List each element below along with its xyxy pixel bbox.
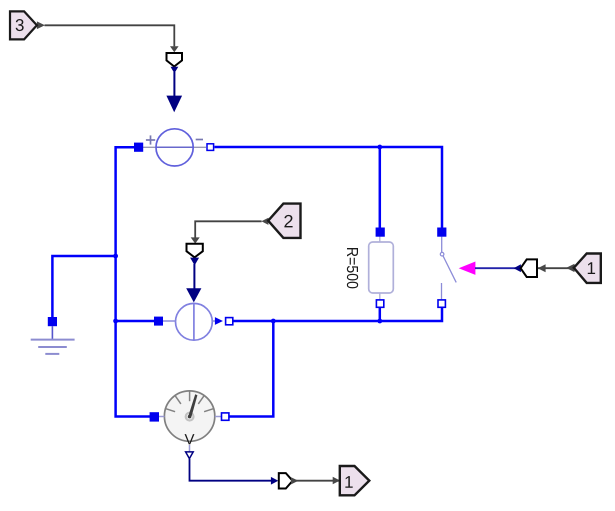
arrowhead out of connector y1: [291, 477, 298, 484]
voltmeter M1 left pin: [150, 412, 159, 421]
wire: resistor bottom to bottom row: [379, 308, 382, 321]
resistor R1 bottom pin: [376, 300, 383, 307]
input tag 2: [268, 204, 300, 238]
wire: left trunk middle segment: [114, 256, 117, 321]
voltmeter M1: [150, 391, 229, 441]
connector y1 (RealOutput pass-through pentagon): [279, 473, 293, 488]
signal wire u2 to current source input: [190, 258, 199, 289]
arrowhead at connector u1 tip: [514, 264, 521, 272]
signal wire voltmeter output to connector y1: [190, 459, 274, 481]
connector u3 (RealInput pass-through pentagon): [167, 53, 183, 67]
voltage source U1 minus label: [196, 139, 203, 141]
voltage source U1 (signal voltage): [143, 129, 206, 166]
wire: voltmeter right branch: [229, 321, 273, 417]
wire: voltage source right pin to switch top: [215, 147, 443, 228]
current source U2 signal input arrow: [186, 288, 201, 302]
junction at trunk/ground tee: [113, 254, 118, 259]
voltmeter M1 output connector: [186, 445, 194, 459]
junction at resistor top branch: [377, 145, 382, 150]
junction at voltmeter branch: [271, 319, 276, 324]
wire: voltage source left pin to left trunk: [116, 147, 134, 256]
wire: current source right pin to switch bottom: [233, 308, 442, 321]
current source U2 positive pin: [154, 317, 163, 326]
wire: ground branch: [52, 256, 115, 318]
ground G1 pin: [48, 317, 57, 326]
switch S1 boolean control input arrow: [459, 262, 476, 275]
voltmeter M1 right pin: [222, 413, 229, 420]
wire from input tag 1 to connector u1: [538, 267, 574, 269]
current source U2 negative pin: [226, 318, 233, 325]
output tag 1: [340, 466, 370, 495]
arrowhead at tag 1 tip: [566, 264, 574, 272]
voltmeter M1 V label: [185, 434, 195, 444]
switch S1 top pin: [437, 228, 446, 237]
current source U2 (signal current): [163, 303, 216, 340]
voltage source U1 signal input arrow: [166, 96, 182, 113]
arrowhead into connector y1: [271, 477, 278, 485]
signal wire from connector u1 to switch control: [475, 267, 517, 269]
arrowhead at tag 2 tip: [261, 218, 268, 225]
resistor R1 body: [369, 236, 394, 299]
wire from input tag 2 to connector u2: [195, 221, 261, 238]
current source U2 direction arrow: [215, 317, 223, 325]
wire: current source left pin to trunk: [116, 320, 155, 323]
wire from input tag 3 to connector u3: [45, 25, 175, 46]
arrowhead at tag 3 tip: [37, 21, 45, 29]
voltage source U1 positive pin: [134, 143, 143, 152]
input tag 1: [574, 254, 601, 283]
input tag 3: [10, 11, 37, 39]
switch S1 (ideal opening switch): [440, 237, 456, 300]
voltage source U1 plus label: [146, 135, 155, 144]
wire: branch down to resistor top: [379, 147, 382, 228]
junction at resistor bottom: [377, 319, 382, 324]
switch S1 bottom pin: [438, 300, 445, 307]
arrowhead into connector u1: [538, 264, 546, 272]
resistor R1 value label R=500: [347, 248, 358, 288]
ground G1: [31, 326, 75, 354]
arrowhead into connector u3: [170, 46, 179, 52]
junction at trunk/current source row: [113, 319, 118, 324]
connector u1 (BooleanInput pass-through pentagon): [521, 259, 537, 277]
arrowhead into output tag 1: [333, 477, 340, 485]
wire from connector y1 to output tag 1: [293, 480, 339, 482]
arrowhead into connector u2: [191, 237, 200, 243]
voltage source U1 negative pin: [207, 144, 214, 151]
wire: left trunk lower segment to voltmeter: [116, 321, 150, 417]
resistor R1 top pin: [376, 228, 385, 237]
connector u2 (RealInput pass-through pentagon): [187, 244, 203, 258]
signal wire u3 to voltage source input: [171, 67, 179, 96]
